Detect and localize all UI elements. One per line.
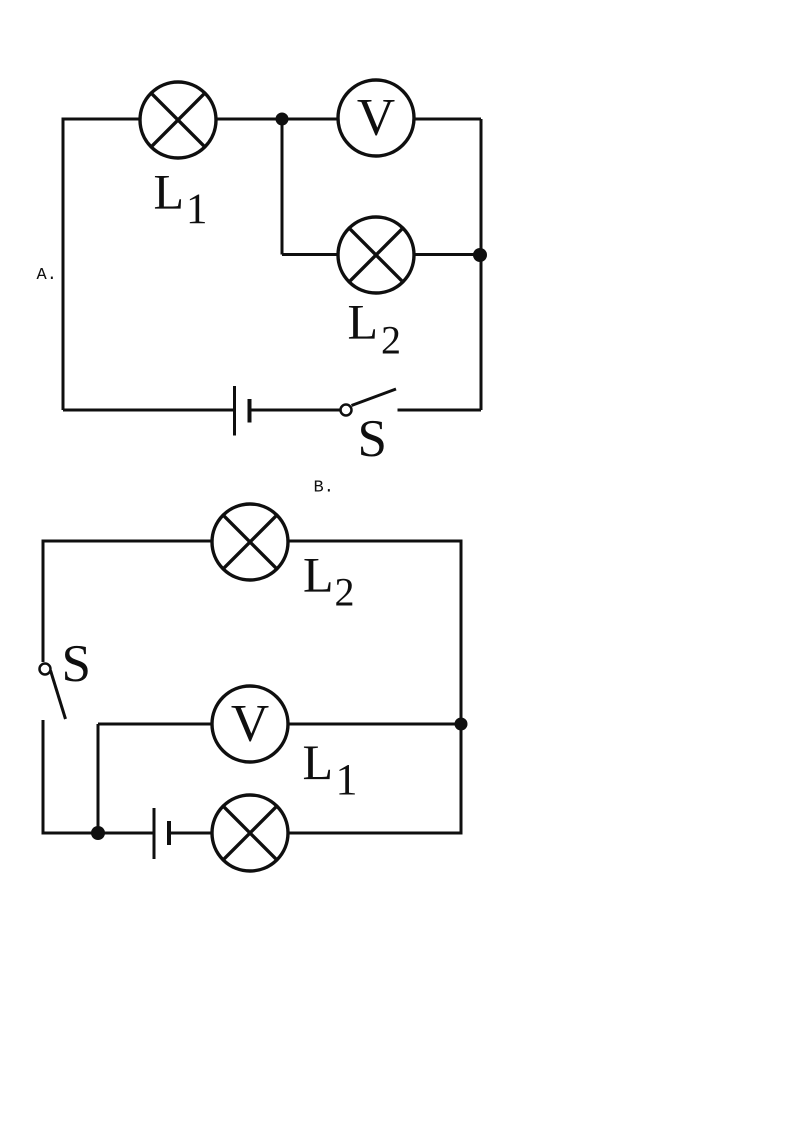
wire: circuit A branch vertical from junction down <box>281 119 284 255</box>
svg-text:1: 1 <box>186 186 208 233</box>
junction node circuit A right <box>473 248 487 262</box>
wire: circuit A top from left corner to junction <box>62 118 283 121</box>
svg-text:2: 2 <box>335 570 355 615</box>
wire: circuit B middle (voltmeter row) <box>98 723 461 726</box>
battery (cell) circuit A <box>235 386 250 436</box>
svg-text:S: S <box>62 635 91 693</box>
wire: circuit B top <box>43 540 461 543</box>
wire: circuit B battery to bottom right <box>169 832 461 835</box>
svg-text:L: L <box>303 547 334 603</box>
svg-text:L: L <box>348 294 379 350</box>
battery (cell) circuit B <box>154 808 169 859</box>
wire: circuit A switch to right corner <box>398 409 482 412</box>
switch S circuit B (open, pivot circle + blade) <box>40 664 66 720</box>
voltmeter V circuit B <box>212 686 288 762</box>
lamp L2 (circle with X) circuit B top <box>212 504 288 580</box>
svg-text:V: V <box>231 695 269 753</box>
svg-text:L: L <box>154 164 185 220</box>
wire: circuit B right side <box>460 540 463 835</box>
wire: circuit A bottom left to battery <box>63 409 235 412</box>
junction node circuit B right <box>455 718 468 731</box>
wire: circuit A left side <box>62 119 65 410</box>
svg-text:1: 1 <box>336 755 358 804</box>
lamp L1 (circle with X) circuit A <box>140 82 216 158</box>
switch S circuit A (open, pivot circle + blade) <box>341 389 397 416</box>
wire: circuit B left lower (switch to bottom) <box>42 720 45 835</box>
wire: circuit A branch horizontal through lamp L2 <box>282 253 481 256</box>
lamp L2 (circle with X) circuit A <box>338 217 414 293</box>
junction node circuit B bottom left <box>91 826 105 840</box>
svg-text:S: S <box>358 410 387 468</box>
svg-text:2: 2 <box>381 318 401 363</box>
wire: circuit A top from junction to right corner <box>282 118 481 121</box>
wire: circuit A right side <box>480 119 483 410</box>
lamp L1 (circle with X) circuit B bottom <box>212 795 288 871</box>
wire: circuit B left upper (to switch) <box>42 540 45 663</box>
svg-text:V: V <box>357 89 395 147</box>
wire: circuit B stub from voltmeter row down to bottom <box>97 724 100 833</box>
svg-text:L: L <box>303 734 334 790</box>
wire: circuit B bottom left to battery <box>43 832 154 835</box>
wire: circuit A battery to switch <box>250 409 341 412</box>
voltmeter V circuit A <box>338 80 414 156</box>
svg-text:B.: B. <box>314 479 334 498</box>
svg-text:A.: A. <box>37 266 57 285</box>
junction node circuit A top <box>276 113 289 126</box>
